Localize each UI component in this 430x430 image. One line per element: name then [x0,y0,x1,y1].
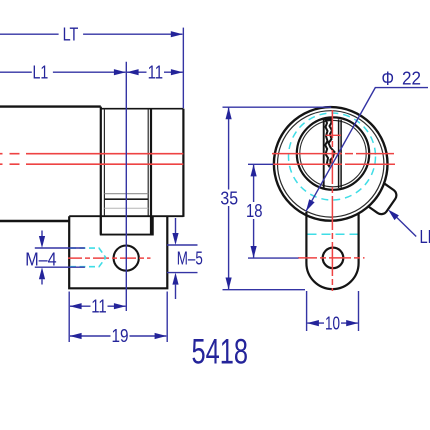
svg-text:11: 11 [148,63,164,83]
extension line circle top [223,106,332,108]
cyan hidden circle (front view) [289,113,376,200]
lug hole (front view) [323,248,344,269]
dimension LT arrow [171,31,183,37]
cyan hidden line in lug (front view) [308,233,358,235]
dimension 18 top arrow [251,164,257,176]
red horizontal centerline plug axis (front view) [272,153,394,155]
keyway right wall outer [338,119,340,188]
red centerline lug hole (front view) [298,257,365,259]
cylinder barrel bottom edge (side view) [0,220,69,222]
svg-text:10: 10 [325,314,340,334]
dimension M-4 top arrow [39,236,45,248]
red tick in keyway [326,134,342,136]
body right end edge [182,109,184,217]
svg-text:M–4: M–4 [25,249,56,269]
extension line cam center [125,62,127,311]
barrel end step vertical [100,107,102,235]
plug circle (front view) [297,117,369,189]
diameter leader line [306,88,428,212]
dimension 11 bottom right arrow [114,303,126,309]
cam interior line upper (gray) [104,193,148,195]
svg-text:LT: LT [63,25,79,45]
dimension 18 bottom arrow [251,246,257,258]
red vertical centerline (front view) [331,110,333,291]
svg-text:18: 18 [246,201,263,221]
extension line lug left front [306,291,308,331]
dimension 10 left arrow [307,320,319,326]
cam tab (front view, rounded square at lower right) [363,180,399,217]
cam housing inner wall left [103,109,105,216]
lug top / body bottom line [69,215,183,217]
extension line body axis short [248,163,273,165]
dimension M-5 top tail [175,218,177,233]
dimension M-5 top arrow [172,233,178,245]
dimension 11 top line [127,71,183,73]
lug screw hole (side view) [114,246,139,271]
dimension L1 arrow [114,69,126,75]
dimension M-4 top tail [41,231,43,237]
extension line lug right front [358,291,360,331]
body rim inner circle [278,111,384,217]
dimension 11 bottom left arrow [70,303,82,309]
LE leader line [392,212,417,236]
extension line lug right [166,292,168,343]
dimension M-4 extension lines [35,248,85,267]
hidden M4 hole bottom edge (cyan) [70,258,106,267]
diameter leader arrow [306,199,315,211]
extension line hole axis front [248,257,299,259]
extension line right end [182,28,184,109]
dimension 35 line [228,107,230,289]
extension line lug bottom front [223,289,306,291]
mounting lug outline (side view) [69,216,167,288]
dimension 19 right arrow [155,333,167,339]
dimension M-4 bottom arrow [39,267,45,279]
svg-text:11: 11 [91,297,107,317]
svg-text:Φ: Φ [382,69,395,90]
svg-text:19: 19 [112,326,129,346]
dimension L1 line [0,71,126,73]
dimension 11 top left arrow [127,69,139,75]
dimension 35 top arrow [226,107,232,119]
dimension 19 left arrow [70,333,82,339]
dimension M-5 extension lines [167,245,198,273]
key profile [325,120,334,167]
mounting lug (front view) [306,212,358,289]
body outer circle (front view) [274,107,388,221]
svg-text:22: 22 [402,68,421,88]
dimension M-5 bottom tail [175,285,177,299]
keyway right wall inner [340,120,342,188]
svg-text:L1: L1 [33,63,49,83]
dimension M-5 bottom arrow [172,273,178,285]
dimension M-4 bottom tail [41,279,43,284]
cam lower boss rectangle [101,216,153,234]
hidden M4 hole top edge (cyan) [70,248,106,258]
cam interior line middle [104,198,148,200]
svg-text:5418: 5418 [192,332,249,372]
extension line lug left [68,292,70,343]
plug rim inner circle [300,120,366,186]
dimension 11 bottom line [70,305,126,307]
dimension LT line [0,33,182,35]
svg-text:35: 35 [220,188,238,208]
LE leader arrow [388,210,399,221]
cam housing outer wall right [150,109,152,235]
dimension 10 line [307,322,358,324]
red centerline plug axis (side view) [0,153,183,155]
red horizontal centerline body axis (front view) [273,163,395,165]
dimension 19 line [70,335,166,337]
dimension 11 top right arrow [171,69,183,75]
red centerline lug hole (side view) [68,257,151,259]
dimension 18 line [253,165,255,258]
dimension 35 bottom arrow [226,278,232,290]
svg-text:LE: LE [420,227,430,247]
dimension 10 right arrow [346,320,358,326]
cam interior line lower (light) [104,207,148,209]
svg-text:M–5: M–5 [177,248,203,268]
body top edge [101,108,184,110]
cylinder barrel top edge (side view) [0,105,101,107]
keyway left wall [323,119,325,188]
red centerline body axis (side view) [0,163,183,165]
cam housing inner wall right [147,109,149,216]
